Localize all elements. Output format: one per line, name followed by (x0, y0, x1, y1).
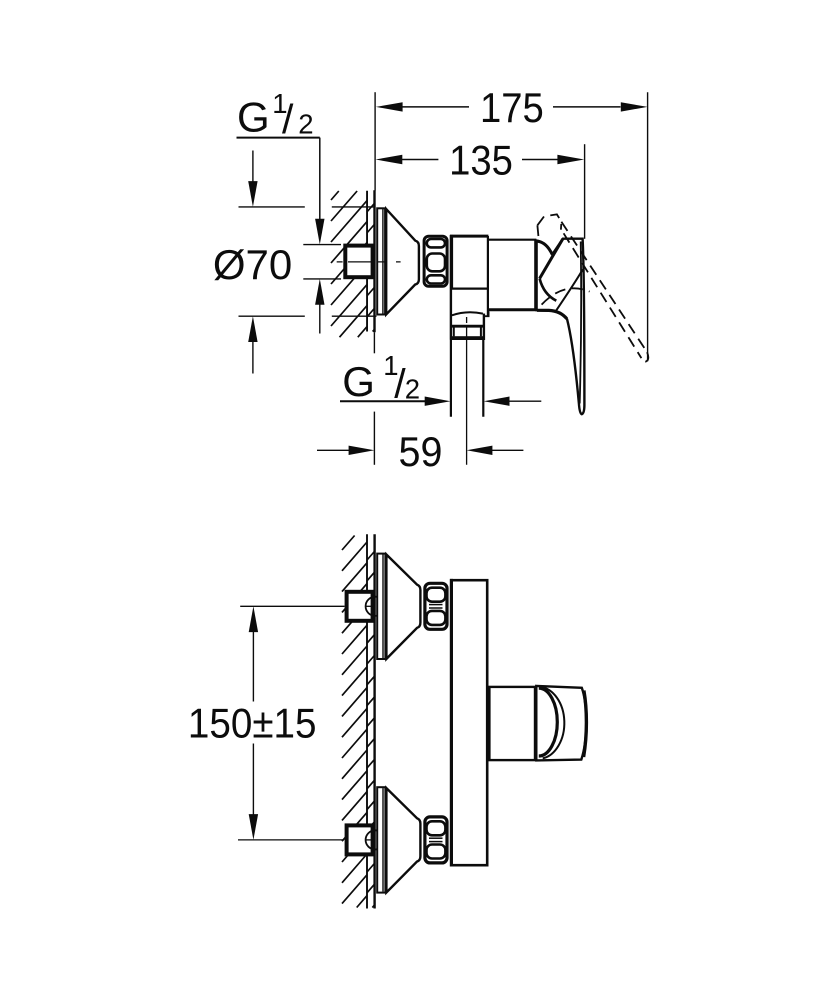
leader G1/2 top (237, 138, 325, 245)
centerline dashes at upper circle (366, 605, 372, 607)
dome top arc emphasis (538, 241, 553, 254)
hex nut (424, 236, 447, 286)
escutcheon flange (377, 208, 385, 314)
extension line left (wall face) (374, 92, 376, 190)
horizontal centerline of inlet (337, 261, 401, 263)
extension line upper inlet center (240, 605, 344, 607)
wall inner line (366, 191, 368, 332)
body plate (452, 580, 488, 865)
knob edge highlight (584, 691, 587, 758)
Ø70 down arrow (248, 151, 257, 207)
handle (dashed, raised position) (537, 214, 648, 361)
dome base arc (556, 269, 583, 311)
handle stem (489, 687, 535, 760)
svg-text:59: 59 (399, 428, 443, 475)
upper inlet nipple (square) (347, 592, 373, 621)
shoulder emphasis (537, 310, 567, 319)
inlet nipple (square thread stub) (345, 246, 372, 278)
extension line right (handle tip) (647, 92, 649, 361)
upper escutcheon cone (386, 555, 420, 659)
knob collar arc (bold D) (539, 688, 558, 756)
upper hex nut (425, 583, 447, 629)
centerline dashes at lower circle (366, 839, 372, 841)
svg-text:135: 135 (449, 137, 513, 184)
wall hatch (side view) (331, 191, 367, 337)
svg-text:Ø70: Ø70 (213, 241, 292, 288)
dimension 150±15 (188, 606, 317, 840)
handle (solid, down position) (537, 239, 585, 415)
up arrow G1/2 (nipple bottom edge) (315, 279, 324, 334)
svg-text:G: G (342, 358, 375, 405)
Ø70 extension lines (239, 206, 376, 208)
lower hex nut (425, 817, 447, 863)
dimension 175 (376, 84, 648, 131)
shower outlet fitting (450, 289, 489, 340)
lower escutcheon cone (386, 788, 420, 892)
lever inner edge line (580, 242, 581, 404)
escutcheon cone (386, 209, 419, 314)
svg-text:175: 175 (480, 84, 544, 131)
cartridge cap cylinder (488, 240, 535, 310)
svg-text:150±15: 150±15 (188, 699, 317, 747)
handle front face edge (540, 239, 563, 279)
svg-text:2: 2 (298, 108, 313, 139)
wall inner line (366, 534, 368, 908)
lower inlet nipple (square) (347, 825, 373, 854)
extension line for 135 (handle front) (584, 144, 586, 239)
upper escutcheon flange (377, 554, 385, 659)
label G 1/2 (top, thread of inlet) (237, 88, 313, 142)
nipple edge extension lines (303, 244, 341, 246)
outlet pipe (450, 340, 452, 417)
knob collar arc (thin) (540, 687, 564, 758)
extension line wall face (59) (373, 412, 375, 465)
dimension 59 (317, 428, 523, 475)
dome lower arc (540, 279, 557, 301)
leader / dimension pipe thread (340, 397, 541, 406)
valve body block (450, 235, 489, 315)
extension line lower inlet center (238, 839, 344, 841)
Ø70 up arrow (248, 316, 257, 373)
handle knob (536, 686, 586, 761)
dimension 135 (376, 137, 585, 184)
upper inlet thread circle (366, 597, 385, 616)
lower inlet thread circle (366, 830, 385, 849)
svg-text:2: 2 (405, 373, 420, 404)
wall face line (373, 190, 375, 332)
label G 1/2 (bottom, shower outlet thread) (342, 350, 420, 407)
svg-text:G: G (237, 94, 270, 141)
lower escutcheon flange (377, 787, 385, 892)
pipe centerline (466, 317, 468, 323)
wall face line (373, 534, 375, 908)
wall hatch (front view) (342, 536, 367, 908)
svg-text:/: / (282, 96, 294, 142)
